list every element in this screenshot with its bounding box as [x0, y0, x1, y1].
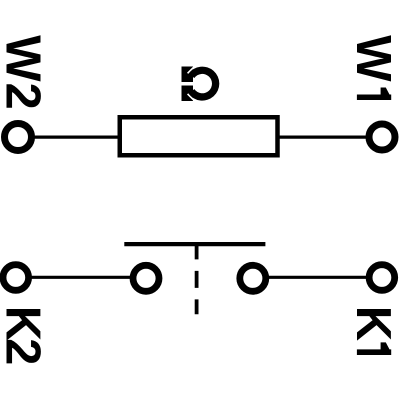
- svg-text:W2: W2: [0, 35, 50, 111]
- svg-text:K2: K2: [0, 306, 50, 364]
- svg-text:K: K: [346, 306, 400, 341]
- svg-text:W: W: [346, 35, 400, 82]
